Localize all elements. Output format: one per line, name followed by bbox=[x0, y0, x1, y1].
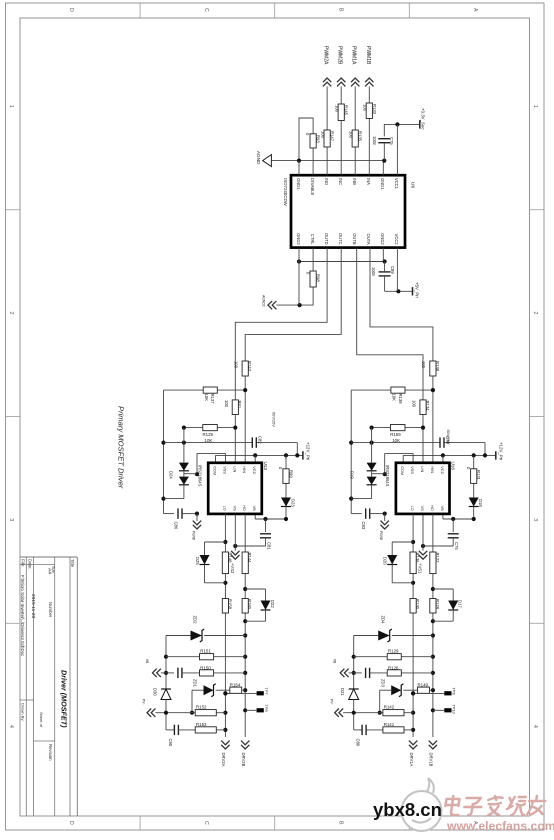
svg-text:10K: 10K bbox=[205, 438, 213, 443]
junction VCC1 node bbox=[395, 122, 399, 126]
resistor R139 10K pulldown HIN bbox=[391, 387, 405, 404]
diode D18 bootstrap bbox=[469, 483, 483, 519]
svg-text:R145: R145 bbox=[344, 105, 349, 116]
resistor R141 bbox=[383, 722, 413, 733]
svg-text:+5V_Pri: +5V_Pri bbox=[414, 282, 419, 298]
svg-text:PGND: PGND bbox=[191, 531, 195, 541]
svg-text:C82: C82 bbox=[257, 436, 262, 444]
svg-text:3: 3 bbox=[8, 518, 14, 521]
wire VCC bypass row bbox=[351, 441, 485, 456]
svg-text:DRV2B: DRV2B bbox=[241, 753, 246, 767]
svg-text:C76: C76 bbox=[454, 542, 459, 550]
wire 10K row to HIN col bbox=[351, 388, 435, 392]
diode D20 across gate LO bbox=[383, 542, 414, 583]
svg-text:COM: COM bbox=[213, 466, 218, 475]
svg-text:OUTD: OUTD bbox=[324, 233, 329, 245]
wire VSS tap row bbox=[383, 453, 414, 476]
resistor R159 10K pulldown LIN bbox=[390, 425, 405, 443]
resistor R160 bbox=[242, 599, 252, 614]
svg-text:R135: R135 bbox=[358, 131, 363, 142]
number label bbox=[48, 602, 53, 618]
svg-text:CTRL: CTRL bbox=[310, 234, 315, 245]
svg-text:PV-: PV- bbox=[142, 699, 146, 704]
title block outline bbox=[20, 557, 77, 816]
svg-text:2015-11-20: 2015-11-20 bbox=[30, 594, 36, 619]
svg-text:D18: D18 bbox=[478, 499, 483, 507]
wire R133 to INA bbox=[368, 119, 370, 176]
U13 pin names bbox=[213, 466, 258, 511]
svg-text:VSS: VSS bbox=[222, 466, 227, 474]
junction GND1-C75 bbox=[382, 159, 386, 163]
zone letters top edge bbox=[68, 8, 478, 12]
diode D30 vertical bbox=[152, 688, 171, 715]
U16 pin names bbox=[400, 466, 445, 511]
svg-text:+12V_Pri: +12V_Pri bbox=[306, 442, 311, 460]
svg-text:IRS21864S: IRS21864S bbox=[385, 465, 390, 487]
capacitor C76 bbox=[421, 519, 459, 550]
svg-text:R149: R149 bbox=[418, 682, 429, 687]
svg-text:VCC2: VCC2 bbox=[394, 234, 399, 246]
svg-text:INA: INA bbox=[366, 178, 371, 185]
svg-text:ybx8.cn: ybx8.cn bbox=[373, 799, 442, 820]
U13 part number IRS21864S bbox=[197, 465, 202, 487]
resistor R128 bbox=[430, 599, 440, 614]
svg-text:D22: D22 bbox=[270, 600, 275, 608]
title block column dividers bbox=[20, 564, 55, 741]
U16 part number IRS21864S bbox=[385, 465, 390, 487]
svg-text:C: C bbox=[203, 821, 209, 825]
wire 10K row to HIN col bbox=[164, 388, 248, 392]
svg-text:AGND: AGND bbox=[256, 151, 261, 165]
svg-text:GND2: GND2 bbox=[296, 233, 301, 245]
junction VCC2 node bbox=[396, 289, 400, 293]
wire VB rail to +5V bbox=[385, 290, 413, 292]
testpoint TP10 bbox=[433, 705, 457, 715]
resistor R142 bbox=[383, 705, 413, 716]
svg-text:C75: C75 bbox=[389, 137, 394, 145]
wire R138 to HIN pin bbox=[432, 376, 434, 463]
svg-text:Driver (MOSFET): Driver (MOSFET) bbox=[60, 670, 69, 728]
port +VS1 bbox=[418, 514, 428, 574]
svg-text:TP8: TP8 bbox=[452, 688, 457, 695]
power +3.3V_Sec bbox=[420, 108, 426, 130]
svg-text:R153: R153 bbox=[196, 722, 207, 727]
capacitor C75 100n bbox=[372, 136, 394, 161]
svg-text:+12V_Pri: +12V_Pri bbox=[498, 442, 503, 460]
title block row lines bbox=[26, 557, 70, 816]
svg-text:R61: R61 bbox=[237, 401, 242, 409]
svg-text:VSS: VSS bbox=[410, 466, 415, 474]
svg-text:VCC: VCC bbox=[252, 466, 257, 474]
wire GND1b pin stub bbox=[382, 161, 384, 176]
svg-text:100: 100 bbox=[224, 400, 229, 408]
testpoint TP9 bbox=[245, 705, 269, 713]
svg-text:HO: HO bbox=[430, 505, 435, 511]
date label and value bbox=[28, 559, 37, 619]
svg-text:10K: 10K bbox=[392, 438, 400, 443]
resistor R152 bbox=[195, 705, 225, 716]
svg-text:LIN: LIN bbox=[232, 466, 237, 472]
svg-text:R144: R144 bbox=[247, 553, 252, 564]
svg-text:www.elecfans.com: www.elecfans.com bbox=[446, 819, 554, 833]
watermark elecfans url bbox=[446, 819, 554, 833]
svg-text:C80: C80 bbox=[356, 739, 361, 747]
svg-text:U16: U16 bbox=[451, 462, 456, 471]
svg-text:HO: HO bbox=[242, 505, 247, 511]
svg-text:R160: R160 bbox=[247, 599, 252, 610]
svg-text:Drawn By:: Drawn By: bbox=[21, 703, 26, 721]
resistor R145 100 bbox=[335, 104, 349, 121]
wire PWM2A to R147 bbox=[326, 87, 328, 131]
svg-text:100: 100 bbox=[363, 104, 368, 112]
svg-text:3: 3 bbox=[532, 518, 538, 521]
svg-text:A4: A4 bbox=[46, 568, 52, 574]
svg-text:4: 4 bbox=[532, 725, 538, 728]
capacitor C89 100n bbox=[371, 262, 395, 292]
resistor R122 gate HO bbox=[430, 552, 440, 574]
svg-text:HIN: HIN bbox=[430, 466, 435, 473]
port PV- low side bbox=[329, 699, 383, 717]
port PWM1A bbox=[351, 46, 360, 86]
resistor R135 100 bbox=[349, 130, 363, 147]
resistor R148 gate LO bbox=[222, 552, 232, 574]
svg-text:PWM1B: PWM1B bbox=[365, 46, 371, 65]
zone numbers right edge bbox=[532, 105, 538, 728]
svg-text:D20: D20 bbox=[383, 557, 388, 565]
resistor R130 bbox=[410, 599, 420, 614]
svg-text:LO: LO bbox=[410, 506, 415, 511]
svg-text:VS: VS bbox=[232, 506, 237, 512]
capacitor C86 bbox=[164, 508, 200, 529]
svg-text:ZD4: ZD4 bbox=[380, 616, 385, 625]
svg-text:COM: COM bbox=[400, 466, 405, 475]
svg-text:DRV1A: DRV1A bbox=[409, 753, 414, 767]
port PGND stub bbox=[191, 514, 201, 541]
port DRV2A bbox=[221, 741, 229, 767]
wire OUTA to channel1 HIN col bbox=[370, 248, 433, 361]
svg-text:C81: C81 bbox=[266, 542, 271, 550]
ground AGND bbox=[256, 151, 272, 167]
resistor R133 100 bbox=[363, 103, 377, 119]
svg-text:Date:: Date: bbox=[28, 559, 33, 569]
capacitor C82 bypass bbox=[252, 412, 276, 448]
svg-text:50V/25V: 50V/25V bbox=[446, 430, 451, 445]
wire GND1 net row bbox=[271, 160, 384, 162]
U6 designator bbox=[410, 182, 416, 188]
resistor R151 bbox=[166, 649, 245, 660]
port +VS2 bbox=[230, 514, 240, 574]
svg-text:+3.3V_Sec: +3.3V_Sec bbox=[421, 108, 426, 130]
svg-text:D: D bbox=[68, 821, 74, 825]
svg-text:R138: R138 bbox=[435, 361, 440, 372]
text Primary MOSFET Driver bbox=[117, 406, 126, 489]
svg-text:D23: D23 bbox=[290, 499, 295, 507]
resistor R137 10K pulldown HIN bbox=[203, 387, 217, 404]
diode D22 across R160 bbox=[245, 589, 275, 621]
wire +12V row bbox=[403, 453, 496, 463]
svg-text:PWM2B: PWM2B bbox=[337, 46, 343, 65]
svg-text:R142: R142 bbox=[384, 705, 395, 710]
resistor R143 100 series HIN bbox=[234, 361, 253, 376]
zener ZD3 row bbox=[378, 679, 418, 715]
wire 10K2 row trunk to LIN col bbox=[370, 426, 426, 430]
wire VB row bbox=[443, 514, 476, 521]
svg-text:ISO7240CDW: ISO7240CDW bbox=[283, 178, 288, 207]
wire PWM1B to R133 bbox=[368, 87, 370, 104]
svg-text:C83: C83 bbox=[361, 522, 366, 530]
resistor R144 gate HO bbox=[242, 552, 252, 574]
port AGND2 bbox=[262, 295, 277, 309]
diode D23 bootstrap bbox=[281, 483, 295, 519]
wire VB row bbox=[255, 514, 288, 521]
wire PWM1A to R135 bbox=[354, 87, 356, 131]
resistor R129 bbox=[354, 649, 433, 660]
resistor R61 100 series LIN bbox=[224, 400, 242, 415]
junction GND2a bbox=[297, 259, 301, 263]
svg-text:B: B bbox=[337, 821, 343, 825]
file label and path bbox=[20, 559, 26, 657]
svg-text:R147: R147 bbox=[330, 131, 335, 142]
svg-text:VB: VB bbox=[252, 506, 257, 512]
svg-text:D25: D25 bbox=[195, 557, 200, 565]
resistor R158 bbox=[222, 599, 232, 614]
svg-text:VCC: VCC bbox=[440, 466, 445, 474]
power +12V_Pri bbox=[303, 442, 311, 460]
resistor R153 bbox=[195, 722, 225, 733]
drawn by label bbox=[21, 703, 26, 721]
resistor R147 100 bbox=[321, 130, 335, 147]
svg-text:50V/25V: 50V/25V bbox=[271, 412, 276, 427]
svg-text:OUTB: OUTB bbox=[352, 233, 357, 245]
svg-text:0: 0 bbox=[305, 133, 310, 136]
testpoint TP7 bbox=[223, 688, 269, 696]
svg-text:R139: R139 bbox=[398, 394, 403, 405]
svg-text:R151: R151 bbox=[200, 649, 211, 654]
port PGND stub bbox=[379, 514, 389, 541]
svg-text:R150: R150 bbox=[200, 665, 211, 670]
diode D24 dual clamp bbox=[164, 428, 198, 499]
svg-text:File:: File: bbox=[21, 559, 26, 567]
wire +12V row bbox=[216, 453, 303, 463]
svg-text:PWM1A: PWM1A bbox=[351, 46, 357, 65]
wire left vertical bus bbox=[349, 390, 353, 513]
svg-text:C86: C86 bbox=[173, 522, 178, 530]
svg-text:PWM2A: PWM2A bbox=[323, 46, 329, 65]
port DRV2B bbox=[241, 741, 249, 767]
svg-text:ZD2: ZD2 bbox=[193, 616, 198, 625]
watermark logo circle bbox=[402, 778, 442, 831]
port PWM1B bbox=[365, 46, 374, 86]
zener ZD4 bbox=[354, 616, 433, 643]
svg-text:R129: R129 bbox=[388, 649, 399, 654]
svg-text:100: 100 bbox=[421, 361, 426, 369]
svg-text:VB: VB bbox=[333, 659, 337, 663]
zener ZD1 row bbox=[190, 679, 230, 715]
svg-text:+VS2: +VS2 bbox=[230, 563, 235, 574]
svg-text:GND1: GND1 bbox=[296, 178, 301, 190]
sheet of label bbox=[39, 712, 44, 728]
wire R147 to IND bbox=[326, 147, 328, 175]
wire R98 to AGND2 port bbox=[276, 287, 313, 305]
wire VCC1 pin stub bbox=[396, 124, 398, 175]
diode D19 dual clamp bbox=[350, 428, 385, 499]
svg-text:DRV2A: DRV2A bbox=[221, 753, 226, 767]
wire R143 to HIN pin bbox=[244, 376, 246, 463]
resistor R150 with series cap bbox=[145, 659, 245, 678]
zener ZD2 bbox=[166, 616, 245, 643]
svg-text:TP9: TP9 bbox=[264, 705, 269, 712]
svg-text:VCC1: VCC1 bbox=[394, 178, 399, 190]
wire R134 to LIN pin bbox=[422, 415, 424, 463]
zone numbers left edge bbox=[8, 105, 14, 728]
svg-text:4: 4 bbox=[8, 725, 14, 728]
resistor R98 0 on CTRL bbox=[305, 271, 320, 287]
wire left vertical bus bbox=[161, 390, 165, 513]
svg-text:C90: C90 bbox=[168, 739, 173, 747]
U6 part number ISO7240CDW bbox=[283, 178, 288, 207]
U16 designator bbox=[451, 462, 456, 471]
svg-text:R134: R134 bbox=[425, 401, 430, 412]
wire R135 to INB bbox=[354, 147, 356, 175]
wire GND2 pin stubs bbox=[299, 248, 383, 262]
svg-text:100: 100 bbox=[412, 400, 417, 408]
svg-text:C89: C89 bbox=[390, 266, 395, 274]
svg-text:TP10: TP10 bbox=[452, 705, 457, 715]
resistor R149 bbox=[418, 682, 433, 693]
svg-text:DISABLE: DISABLE bbox=[310, 178, 315, 196]
svg-text:GND1: GND1 bbox=[380, 178, 385, 190]
driver IC U16 body bbox=[396, 463, 450, 514]
svg-text:R136: R136 bbox=[415, 553, 420, 564]
svg-text:100: 100 bbox=[234, 361, 239, 369]
svg-text:Number: Number bbox=[48, 602, 53, 618]
svg-text:R129: R129 bbox=[203, 432, 214, 437]
wire 10K2 row trunk to LIN col bbox=[182, 426, 238, 430]
svg-text:Revision: Revision bbox=[48, 744, 53, 761]
svg-text:TP7: TP7 bbox=[264, 688, 269, 695]
U6 pin names top row bbox=[296, 178, 399, 196]
wire HO column bbox=[431, 514, 435, 737]
svg-text:R128: R128 bbox=[435, 599, 440, 610]
svg-text:OUTC: OUTC bbox=[338, 233, 343, 245]
wire HO column bbox=[243, 514, 247, 737]
svg-text:100: 100 bbox=[349, 131, 354, 139]
wire LO column bbox=[411, 514, 415, 737]
testpoint TP8 bbox=[411, 688, 457, 696]
svg-text:R143: R143 bbox=[247, 361, 252, 372]
svg-text:D17: D17 bbox=[458, 600, 463, 608]
junction GND2b bbox=[383, 259, 387, 263]
svg-text:IND: IND bbox=[324, 178, 329, 185]
svg-text:R152: R152 bbox=[196, 705, 207, 710]
svg-text:ZD3: ZD3 bbox=[380, 679, 385, 688]
resistor R129 10K pulldown LIN bbox=[203, 425, 218, 443]
svg-text:R131: R131 bbox=[476, 470, 481, 481]
svg-text:D: D bbox=[68, 8, 74, 12]
wire GND2 net row bbox=[299, 261, 385, 263]
wire CTRL pin stub bbox=[312, 248, 314, 271]
svg-text:R133: R133 bbox=[372, 104, 377, 115]
wire GND1 pin stub bbox=[298, 161, 300, 176]
svg-text:DRV1B: DRV1B bbox=[429, 753, 434, 767]
resistor R136 gate LO bbox=[410, 552, 420, 574]
svg-text:HIN: HIN bbox=[242, 466, 247, 473]
wire OUTC to channel2 HIN col bbox=[245, 248, 341, 361]
capacitor C90 row bbox=[166, 713, 195, 747]
wire R145 to INC bbox=[340, 121, 342, 176]
port PV- low side bbox=[142, 699, 196, 717]
capacitor C81 bbox=[233, 519, 271, 550]
isolator U6 body bbox=[291, 175, 405, 247]
svg-text:R122: R122 bbox=[435, 553, 440, 564]
svg-text:INC: INC bbox=[338, 178, 343, 185]
svg-text:D21: D21 bbox=[340, 688, 345, 696]
svg-text:VB: VB bbox=[440, 506, 445, 512]
svg-text:C: C bbox=[203, 8, 209, 12]
svg-text:R154: R154 bbox=[230, 682, 241, 687]
resistor R134 100 series LIN bbox=[412, 400, 430, 415]
svg-text:10K: 10K bbox=[204, 394, 209, 402]
svg-text:LO: LO bbox=[222, 506, 227, 511]
svg-text:Title: Title bbox=[70, 559, 75, 568]
wire GND2a drop bbox=[298, 262, 300, 306]
svg-text:A: A bbox=[472, 8, 478, 12]
wire left lower bus bbox=[164, 636, 168, 690]
port PWM2B bbox=[337, 46, 346, 86]
wire PWM2B to R145 bbox=[340, 87, 342, 105]
revision label bbox=[48, 744, 53, 761]
svg-text:OUTA: OUTA bbox=[366, 234, 371, 245]
svg-text:VB: VB bbox=[145, 659, 149, 663]
diode D25 across gate LO bbox=[195, 542, 226, 583]
wire R61 to LIN pin bbox=[234, 415, 236, 463]
wire R93 loop to GND1 net bbox=[299, 118, 313, 161]
U6 pin names bottom row bbox=[296, 233, 399, 245]
resistor R131 0 bootstrap bbox=[466, 455, 481, 483]
svg-text:10K: 10K bbox=[392, 394, 397, 402]
svg-text:R159: R159 bbox=[390, 432, 401, 437]
sheet title Driver (MOSFET) bbox=[60, 670, 69, 728]
svg-text:R158: R158 bbox=[227, 599, 232, 610]
wire +3.3V rail bbox=[384, 124, 420, 136]
svg-text:U6: U6 bbox=[410, 182, 416, 188]
svg-text:INB: INB bbox=[352, 178, 357, 185]
zone letters bottom edge bbox=[68, 821, 478, 825]
svg-text:1: 1 bbox=[532, 105, 538, 108]
svg-text:100: 100 bbox=[335, 105, 340, 113]
diode D21 vertical bbox=[340, 688, 359, 715]
svg-text:D24: D24 bbox=[168, 471, 173, 479]
resistor R154 bbox=[230, 682, 245, 693]
wire VCC2 pin stub bbox=[396, 248, 398, 292]
svg-text:Sheet of: Sheet of bbox=[39, 712, 44, 728]
watermark elecfans logo strokes bbox=[444, 796, 546, 815]
power +5V_Pri bbox=[413, 282, 420, 298]
svg-text:R130: R130 bbox=[415, 599, 420, 610]
svg-text:ZD1: ZD1 bbox=[193, 679, 198, 688]
capacitor C83 bbox=[351, 508, 387, 529]
svg-text:R93: R93 bbox=[316, 135, 321, 143]
svg-text:R98: R98 bbox=[316, 274, 321, 282]
watermark ybx8.cn bbox=[373, 799, 442, 820]
svg-text:AGND2: AGND2 bbox=[262, 295, 266, 307]
svg-text:Primary MOSFET Driver: Primary MOSFET Driver bbox=[117, 406, 126, 489]
wire left lower bus bbox=[352, 636, 356, 690]
resistor R126 with series cap bbox=[333, 659, 433, 678]
wire OUTD to channel2 LIN col bbox=[235, 248, 327, 400]
junction GND2 drop bbox=[298, 303, 302, 307]
U13 designator bbox=[263, 462, 268, 471]
